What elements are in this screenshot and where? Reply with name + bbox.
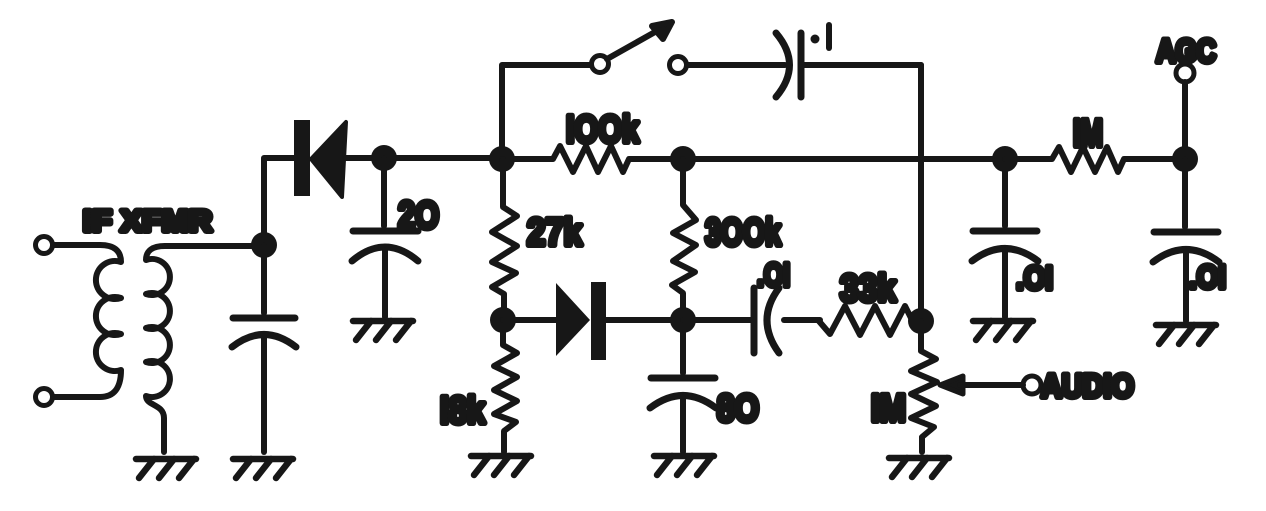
svg-text:IOOk: IOOk [566,109,640,151]
capacitor C2 20pF [353,228,418,235]
wire C7 to ground [1183,251,1189,321]
wiper arrow AUDIO [940,376,963,394]
diode D2 [556,283,590,356]
wire switch to capacitor C3 [687,62,785,68]
wire D2 to node G [606,317,683,323]
wire node T down to capacitor C1 [261,245,267,313]
svg-text:AUDIO: AUDIO [1041,368,1134,404]
ground R6 [889,458,949,477]
svg-text:3OOk: 3OOk [705,212,782,254]
switch S1 [592,56,609,73]
capacitor C4 80pF [651,375,715,382]
wire node B up to switch [502,65,591,159]
resistor R4 300k [672,159,696,320]
wire C2 to ground [382,250,388,317]
wire node T up to diode D1 [264,158,294,245]
wire C3 to vertical drop [801,62,921,68]
ground C2 [353,321,413,340]
wire node E up to AGC [1182,82,1188,159]
wire C5 to resistor R5 [784,317,820,323]
node E [1172,146,1198,172]
wire node G to capacitor C5 [683,317,752,323]
wire D1 to node B [346,155,502,161]
resistor R7 1M [1005,147,1185,172]
ground C4 [654,456,714,475]
wire vertical drop to node H [918,65,924,321]
resistor R5 33k [818,306,921,335]
wire node A down to capacitor C2 [381,158,387,226]
svg-text:IF XFMR: IF XFMR [83,205,212,238]
svg-text:2O: 2O [398,195,439,237]
capacitor C5 0.01 coupling [751,288,758,353]
svg-text:IM: IM [871,388,906,430]
svg-text:AGC: AGC [1156,33,1216,69]
ground C1 [233,459,293,478]
node H [908,308,934,334]
svg-text:33k: 33k [840,268,897,310]
wire node C to node D [683,156,1005,162]
svg-text:.OI: .OI [757,257,790,293]
wire J2 to primary [53,394,100,400]
capacitor C1 xfmr tuning [233,315,295,322]
capacitor C3 0.1 [776,33,790,97]
label .1 [811,35,820,44]
svg-text:I8k: I8k [440,390,486,432]
terminal AUDIO [1023,376,1041,394]
svg-text:.OI: .OI [1016,260,1053,296]
wire node D down to capacitor C6 [1002,159,1008,226]
node C [670,146,696,172]
potentiometer R6 1M [911,321,937,452]
node T xfmr junction [251,232,277,258]
node B [489,146,515,172]
svg-text:27k: 27k [527,212,583,254]
wire secondary to node T [165,243,264,249]
node A [371,145,397,171]
terminal J1 top input [36,237,53,254]
ground R3 [471,456,531,475]
transformer T1 primary winding [96,245,121,397]
svg-text:IM: IM [1073,113,1103,155]
wire node E down to capacitor C7 [1182,159,1188,227]
terminal AGC [1176,64,1194,82]
diode D1 [294,120,310,196]
svg-text:8O: 8O [717,388,759,430]
ground secondary [136,459,196,478]
transformer T1 secondary winding [146,246,170,452]
node D [992,146,1018,172]
resistor R1 100k [502,146,683,172]
wire node F to diode D2 [503,317,556,323]
wire C1 to ground [261,336,267,452]
svg-text:.OI: .OI [1189,259,1226,295]
wire C4 to ground [680,397,686,452]
wire J1 to primary [53,242,100,248]
capacitor C6 0.01 [973,228,1037,235]
wire node G down to capacitor C4 [680,320,686,373]
terminal J2 bottom input [36,389,53,406]
ground C7 [1156,325,1216,344]
resistor R3 18k [494,320,517,452]
node F [490,307,516,333]
capacitor C7 0.01 [1154,229,1218,236]
resistor R2 27k [492,159,517,320]
node G [670,307,696,333]
wire C6 to ground [1002,250,1008,317]
ground C6 [973,321,1033,340]
